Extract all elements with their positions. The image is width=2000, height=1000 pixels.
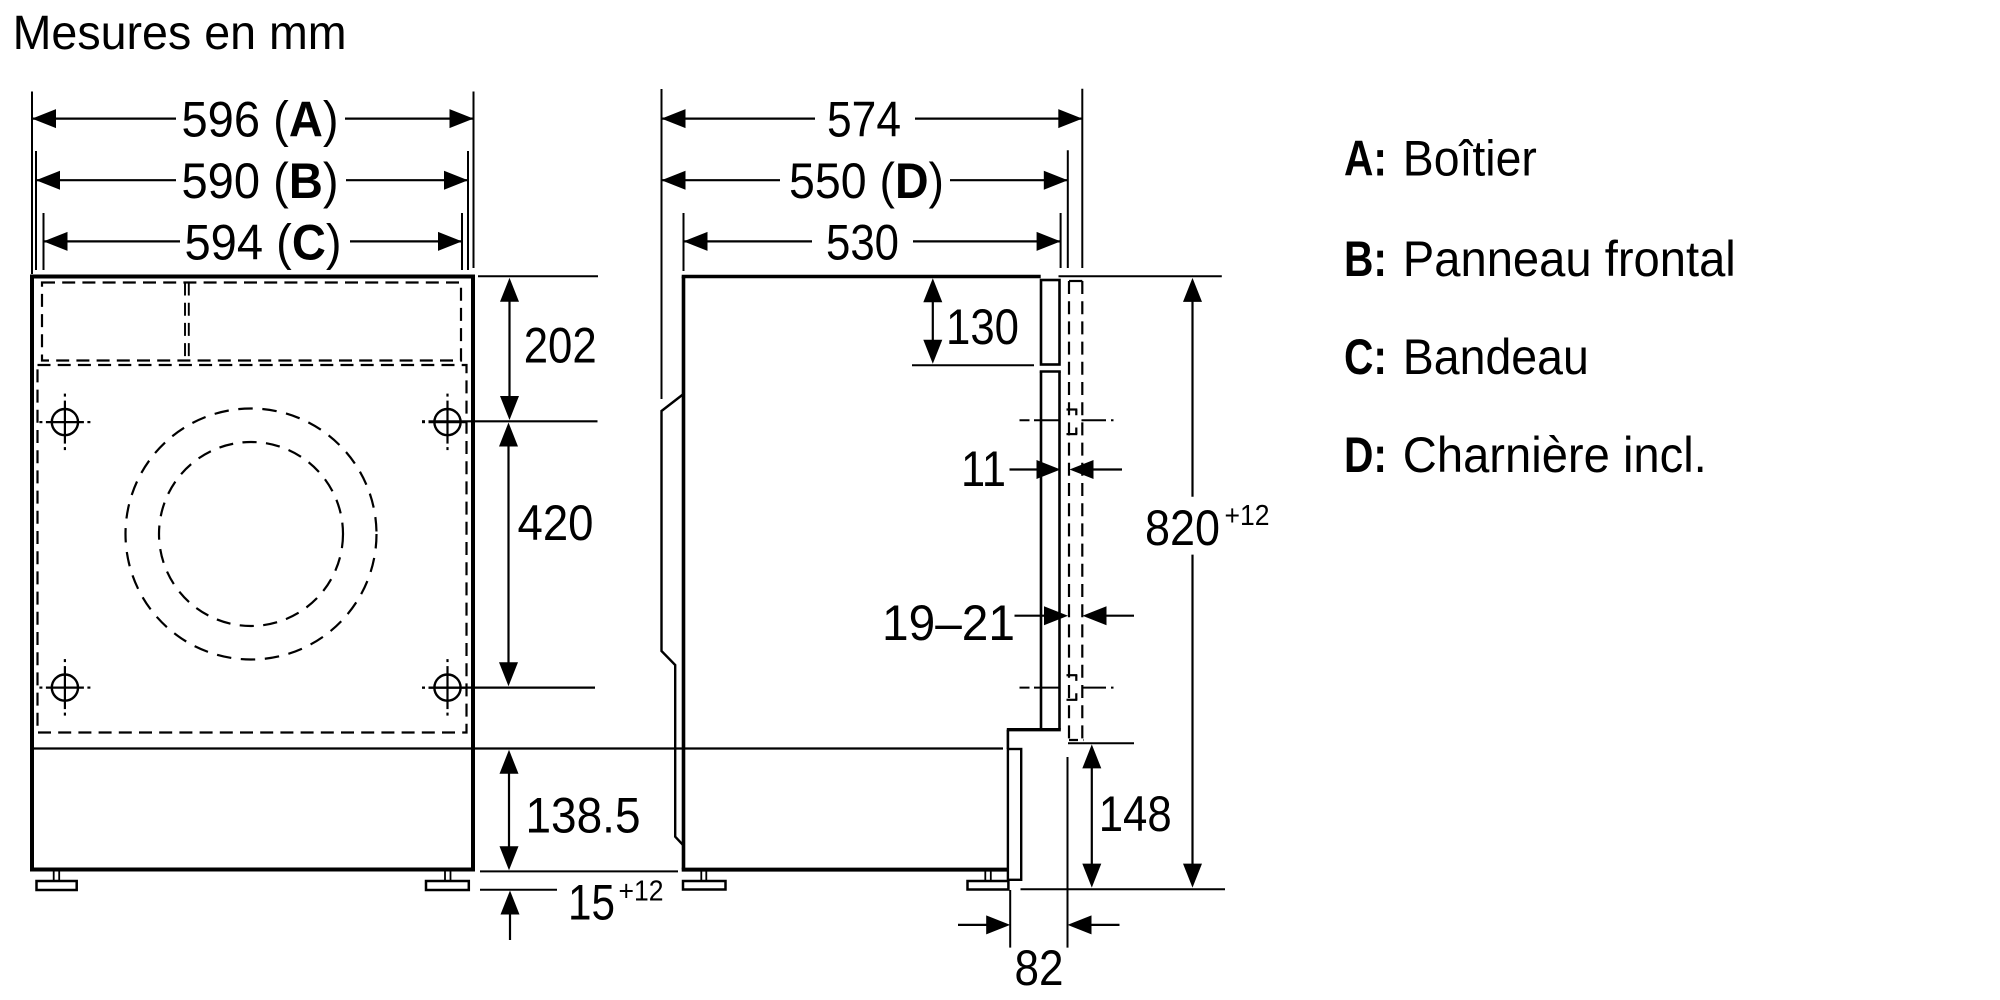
svg-text:Panneau frontal: Panneau frontal xyxy=(1403,231,1736,287)
svg-text:15: 15 xyxy=(568,875,615,931)
svg-text:A:: A: xyxy=(1344,131,1387,187)
svg-text:D:: D: xyxy=(1344,427,1387,483)
svg-text:574: 574 xyxy=(827,92,901,148)
svg-text:Bandeau: Bandeau xyxy=(1403,329,1589,385)
svg-text:594 (C): 594 (C) xyxy=(185,214,342,270)
svg-text:+12: +12 xyxy=(619,876,664,908)
svg-text:Charnière incl.: Charnière incl. xyxy=(1403,427,1707,483)
svg-text:550 (D): 550 (D) xyxy=(789,153,944,209)
svg-text:420: 420 xyxy=(518,495,594,551)
svg-text:Boîtier: Boîtier xyxy=(1403,131,1537,187)
svg-text:202: 202 xyxy=(524,318,597,374)
svg-text:11: 11 xyxy=(961,441,1006,497)
svg-text:596 (A): 596 (A) xyxy=(182,92,339,148)
svg-text:B:: B: xyxy=(1344,231,1387,287)
svg-text:138.5: 138.5 xyxy=(526,788,641,844)
svg-text:Mesures en mm: Mesures en mm xyxy=(13,7,347,60)
svg-text:+12: +12 xyxy=(1225,500,1270,532)
svg-text:C:: C: xyxy=(1344,329,1387,385)
svg-text:19–21: 19–21 xyxy=(882,595,1015,651)
svg-text:820: 820 xyxy=(1145,500,1220,556)
svg-text:530: 530 xyxy=(826,214,899,270)
svg-text:130: 130 xyxy=(946,299,1019,355)
svg-text:148: 148 xyxy=(1099,786,1172,842)
svg-text:590 (B): 590 (B) xyxy=(182,153,339,209)
svg-text:82: 82 xyxy=(1015,940,1064,996)
